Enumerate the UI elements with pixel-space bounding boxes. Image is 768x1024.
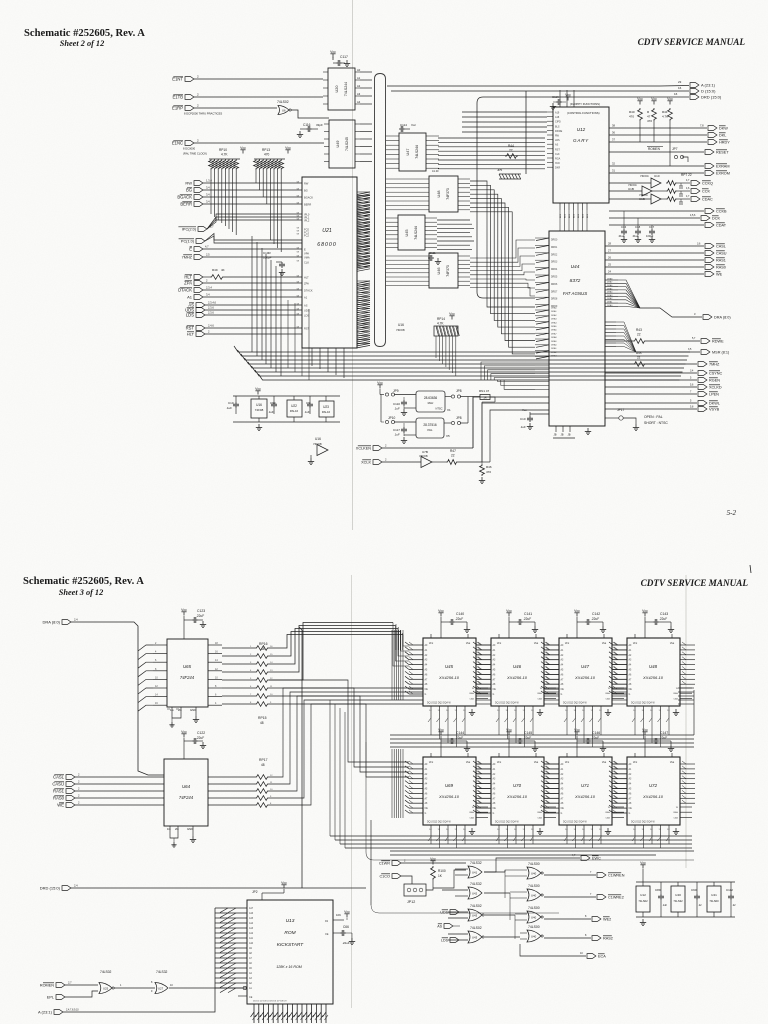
svg-text:AS: AS: [304, 303, 308, 307]
svg-text:U16: U16: [398, 323, 404, 327]
wire UDS: [205, 309, 302, 311]
node E: [194, 247, 203, 252]
wire address fan into row1 chips: [395, 624, 397, 650]
wire CASU row: [605, 252, 704, 254]
svg-text:DRA8: DRA8: [551, 336, 557, 339]
IC U12 GARY: [553, 107, 609, 203]
svg-text:74LS244: 74LS244: [344, 82, 348, 96]
wire address bus over the top to RAM: [269, 635, 403, 649]
svg-text:DRD (15:0): DRD (15:0): [40, 886, 61, 891]
svg-text:22: 22: [509, 149, 513, 153]
wire ZPA: [203, 282, 302, 284]
svg-text:G: G: [425, 813, 427, 815]
svg-text:DRA7: DRA7: [551, 332, 557, 335]
svg-text:U64: U64: [182, 784, 191, 789]
svg-text:1R: 1R: [483, 396, 486, 400]
svg-text:Vcc: Vcc: [430, 857, 436, 861]
svg-text:C117: C117: [340, 55, 348, 59]
svg-text:U48: U48: [437, 191, 441, 198]
svg-text:RST: RST: [186, 326, 195, 331]
svg-text:C112: C112: [726, 888, 733, 892]
svg-text:JB: JB: [568, 433, 571, 437]
main vertical bus loop: [375, 74, 386, 347]
svg-text:.22: .22: [732, 904, 736, 907]
node BG: [194, 188, 203, 193]
svg-text:U21: U21: [322, 228, 332, 234]
node C1WR: [392, 861, 401, 866]
wire fan-out risers to AGNUS: [480, 352, 482, 389]
svg-text:XX4256-10: XX4256-10: [574, 675, 596, 680]
svg-text:Vcc: Vcc: [449, 312, 455, 316]
node EPL: [56, 995, 65, 1000]
svg-text:28.63636: 28.63636: [424, 396, 438, 400]
RAM U69 right pins: [476, 806, 488, 808]
svg-text:G: G: [561, 694, 563, 696]
svg-text:CCKQ: CCKQ: [702, 182, 713, 186]
wire vertical drops from connector rows to lower fan: [251, 236, 253, 352]
U65 right pins: [208, 644, 222, 646]
ground U71: [607, 828, 609, 832]
svg-text:DQ1 DQ2 DQ3 DQ4 W: DQ1 DQ2 DQ3 DQ4 W: [563, 703, 587, 705]
svg-text:RAS0: RAS0: [716, 266, 726, 270]
ground U45: [471, 709, 473, 713]
svg-text:U40: U40: [531, 872, 537, 876]
svg-text:74F08: 74F08: [396, 328, 405, 332]
node DTACK: [194, 288, 203, 293]
wire DTACK: [203, 289, 302, 291]
svg-text:41 40: 41 40: [432, 169, 439, 173]
wire CDAT row: [609, 224, 704, 226]
svg-text:Vcc: Vcc: [438, 728, 444, 732]
svg-text:ZPA: ZPA: [184, 281, 192, 286]
U65 left pins: [153, 644, 167, 646]
node XCLKEN: [373, 446, 382, 451]
svg-text:CLK: CLK: [304, 260, 309, 264]
svg-text:Vcc: Vcc: [642, 728, 648, 732]
svg-text:2,4,7,8,9,10: 2,4,7,8,9,10: [66, 1009, 79, 1012]
svg-text:A (23:1): A (23:1): [38, 1010, 53, 1015]
svg-text:GARY: GARY: [573, 138, 589, 143]
svg-text:U6: U6: [282, 109, 286, 113]
svg-text:JP9: JP9: [393, 389, 399, 393]
wire control lines row2 feed: [330, 835, 692, 837]
svg-text:DRA2: DRA2: [607, 297, 613, 300]
svg-text:74LS02: 74LS02: [638, 899, 648, 903]
node E1NT: [185, 77, 194, 82]
svg-text:.1uF: .1uF: [394, 433, 400, 437]
svg-text:JP5: JP5: [497, 168, 503, 172]
capacitor C89: [660, 882, 662, 894]
wire BERR: [203, 203, 302, 205]
svg-text:DCK: DCK: [712, 217, 720, 221]
RAM U47 XX4256-10: [559, 638, 612, 706]
svg-text:DKWE: DKWE: [555, 130, 563, 133]
node HLT2: [196, 332, 205, 337]
svg-text:4,5,6: 4,5,6: [690, 214, 696, 217]
svg-text:DKW: DKW: [719, 127, 728, 131]
GARY bottom pins: [559, 203, 561, 210]
svg-text:DRA1: DRA1: [551, 310, 557, 313]
wire XCLKEN: [382, 447, 473, 449]
svg-text:.22uF: .22uF: [342, 941, 350, 945]
svg-text:74F373: 74F373: [446, 188, 450, 200]
svg-text:28.37516: 28.37516: [423, 423, 437, 427]
node CDAC: [691, 197, 700, 202]
svg-text:VMA: VMA: [304, 255, 310, 259]
ROM lower-left pin stubs: [238, 995, 247, 997]
svg-text:Vcc: Vcc: [330, 50, 336, 54]
svg-text:U44: U44: [571, 264, 580, 270]
svg-text:74LS244: 74LS244: [414, 226, 418, 240]
svg-text:C141: C141: [524, 612, 532, 616]
node AS input: [444, 924, 453, 929]
svg-text:RST: RST: [304, 326, 310, 330]
svg-text:22: 22: [637, 333, 641, 337]
ROM right side pins: [333, 919, 344, 921]
svg-text:10K: 10K: [336, 913, 341, 917]
tick mark right edge: [750, 565, 751, 573]
node A(23:1) sheet3: [54, 1010, 63, 1015]
svg-text:74F08: 74F08: [313, 442, 322, 446]
svg-text:DRA3: DRA3: [551, 318, 557, 321]
svg-text:C1WR: C1WR: [379, 862, 390, 866]
RAM U69 XX4256-10: [423, 757, 476, 825]
svg-text:HLT: HLT: [184, 275, 192, 280]
RAM U70 left pins: [477, 763, 491, 765]
svg-text:U46: U46: [437, 268, 441, 275]
svg-text:74LS32: 74LS32: [673, 899, 683, 903]
svg-text:7MHZ: 7MHZ: [709, 363, 720, 367]
svg-text:U12: U12: [640, 893, 646, 897]
svg-text:74LS02: 74LS02: [470, 926, 482, 930]
wire ECA output: [520, 944, 586, 956]
svg-text:U16: U16: [256, 403, 262, 407]
RC network 2: [666, 189, 677, 194]
svg-text:C119: C119: [552, 95, 559, 99]
wire RST: [205, 327, 302, 329]
RAM U45 right address pins: [476, 644, 491, 646]
svg-text:A1: A1: [187, 295, 193, 300]
svg-text:U69: U69: [445, 783, 454, 788]
svg-text:G: G: [561, 813, 563, 815]
node DKWL: [708, 133, 717, 138]
svg-text:IPC(2:0): IPC(2:0): [182, 228, 197, 232]
node 7MHZ out: [698, 362, 707, 367]
svg-text:4.7K: 4.7K: [662, 115, 668, 119]
wire CCKB row: [609, 210, 704, 212]
svg-text:U43: U43: [472, 914, 478, 918]
svg-text:C90: C90: [691, 888, 697, 892]
svg-text:U20: U20: [335, 86, 339, 93]
svg-text:.22uF: .22uF: [659, 617, 667, 621]
svg-text:DRA2: DRA2: [551, 351, 557, 354]
svg-text:DKL: DKL: [719, 134, 726, 138]
svg-text:DRA7: DRA7: [607, 281, 613, 284]
svg-text:Sheet 2 of 12: Sheet 2 of 12: [60, 39, 104, 48]
svg-text:DRA1: DRA1: [607, 301, 613, 304]
svg-text:470: 470: [629, 115, 634, 119]
wire E1TB: [194, 96, 323, 98]
wire RAS1 row: [605, 259, 704, 261]
svg-text:U12: U12: [577, 127, 586, 132]
svg-text:Vcc: Vcc: [565, 93, 571, 97]
svg-text:DRD3: DRD3: [551, 262, 558, 264]
svg-text:.22: .22: [698, 904, 702, 907]
svg-text:UDS: UDS: [440, 911, 448, 915]
ground U70: [539, 828, 541, 832]
svg-text:Vcc: Vcc: [506, 609, 512, 613]
svg-text:GND: GND: [187, 827, 193, 831]
svg-text:Vcc: Vcc: [633, 760, 638, 764]
svg-text:CAS: CAS: [606, 697, 611, 700]
svg-text:RGEN: RGEN: [709, 379, 720, 383]
svg-text:LPEN: LPEN: [709, 393, 719, 397]
RAM U45 XX4256-10: [423, 638, 476, 706]
wire row2 chip bottom taps: [430, 837, 432, 844]
svg-text:DRD0: DRD0: [551, 240, 558, 242]
node RESET: [705, 150, 714, 155]
wire rows into GARY upper-left pins: [462, 111, 547, 113]
svg-text:PC(1:0): PC(1:0): [181, 240, 195, 244]
ground U47: [607, 709, 609, 713]
wire E1NC to U49: [194, 142, 324, 144]
svg-text:.1uF: .1uF: [520, 425, 526, 429]
svg-text:CDAT: CDAT: [716, 224, 727, 228]
svg-text:DRA (8:0): DRA (8:0): [42, 620, 60, 625]
svg-text:BGACK: BGACK: [304, 195, 313, 199]
svg-text:7,8: 7,8: [700, 124, 704, 128]
node LDS: [196, 313, 205, 318]
svg-text:U41: U41: [711, 893, 717, 897]
svg-text:RN1 47: RN1 47: [479, 389, 490, 393]
svg-text:RGA: RGA: [555, 158, 561, 161]
svg-text:Vcc: Vcc: [574, 728, 580, 732]
wire left vertical to bottom: [77, 860, 79, 888]
svg-text:100pF: 100pF: [263, 256, 272, 260]
svg-text:2,3,4: 2,3,4: [206, 286, 212, 290]
svg-text:RDWE: RDWE: [712, 340, 724, 344]
svg-text:Vcc: Vcc: [344, 910, 350, 914]
svg-text:74LS00: 74LS00: [528, 862, 540, 866]
svg-text:A19: A19: [555, 112, 560, 115]
wire WE2 output: [544, 918, 591, 920]
RC network 3: [666, 197, 677, 202]
node BERR: [194, 202, 203, 207]
svg-text:C1WRE2: C1WRE2: [608, 896, 624, 900]
node RST: [196, 326, 205, 331]
wire A bus to ROM riser: [63, 908, 215, 1012]
svg-text:.22uF: .22uF: [455, 617, 463, 621]
svg-text:CAS: CAS: [674, 697, 679, 700]
svg-text:U40: U40: [531, 916, 537, 920]
svg-text:R41: R41: [662, 110, 668, 114]
buffer U49 74LS245: [329, 120, 355, 168]
ground U46: [539, 709, 541, 713]
oscillator X5 28.37516 PAL: [416, 418, 444, 438]
svg-text:WE2: WE2: [603, 918, 611, 922]
svg-text:RAS: RAS: [470, 692, 475, 695]
RAM U48 bottom pins: [634, 706, 636, 718]
RAM U47 right pins: [612, 687, 624, 689]
svg-text:IPL2: IPL2: [304, 218, 310, 222]
svg-text:8 DCP2000 THRU PRACTICES: 8 DCP2000 THRU PRACTICES: [184, 112, 222, 116]
svg-text:U25: U25: [103, 987, 109, 991]
RAM U47 left pins: [545, 644, 559, 646]
wire LDS: [205, 314, 302, 316]
AGNUS left pin hatch group 2: [535, 309, 549, 311]
wire RW to CPU: [203, 182, 302, 184]
AGNUS MSR pins merge: [605, 321, 616, 323]
svg-text:XX4256-10: XX4256-10: [506, 675, 528, 680]
svg-text:Vcc: Vcc: [255, 387, 261, 391]
svg-text:C122: C122: [197, 731, 205, 735]
svg-text:DRA4: DRA4: [551, 321, 557, 324]
svg-text:CAS: CAS: [538, 697, 543, 700]
svg-text:DRA8: DRA8: [607, 277, 613, 280]
svg-text:A4: A4: [357, 100, 361, 104]
svg-text:DRD7: DRD7: [551, 291, 558, 293]
wire bus drop to GARY area: [525, 91, 527, 174]
node UDS: [196, 308, 205, 313]
wire into buffer 1: [609, 182, 651, 184]
wire E1RP to gate: [194, 107, 277, 109]
RAM U71 bottom pins: [566, 825, 568, 837]
node WE2: [592, 917, 601, 922]
jumper JP12: [404, 884, 426, 896]
svg-text:128K x 16 ROM: 128K x 16 ROM: [276, 965, 302, 969]
svg-text:CDTV SERVICE MANUAL: CDTV SERVICE MANUAL: [641, 578, 749, 588]
svg-text:CDTV SERVICE MANUAL: CDTV SERVICE MANUAL: [638, 37, 746, 47]
svg-text:RP15: RP15: [258, 716, 267, 720]
svg-text:C10: C10: [228, 401, 234, 405]
svg-text:74LS32: 74LS32: [470, 882, 482, 886]
svg-text:74F373: 74F373: [446, 265, 450, 277]
wire C1WRE2 output: [544, 896, 596, 898]
svg-text:C10: C10: [520, 417, 526, 421]
wire WE row: [605, 273, 704, 275]
svg-text:DRD (15:0): DRD (15:0): [701, 95, 722, 100]
svg-text:EWC: EWC: [592, 857, 601, 861]
wire RAS2 output: [544, 937, 591, 939]
svg-text:3,4: 3,4: [206, 193, 210, 197]
capacitor C112: [730, 882, 732, 894]
svg-text:CIPD: CIPD: [555, 121, 561, 124]
svg-text:A (23:1): A (23:1): [701, 83, 716, 88]
wire XCLK: [382, 461, 421, 463]
svg-text:U40: U40: [531, 935, 537, 939]
svg-text:2,7: 2,7: [68, 981, 72, 985]
svg-text:U40: U40: [531, 894, 537, 898]
svg-text:U47: U47: [406, 149, 410, 156]
wire DCK row: [609, 217, 700, 219]
svg-text:RP7 22: RP7 22: [681, 173, 692, 177]
svg-text:GND: GND: [190, 708, 196, 712]
svg-text:U43: U43: [472, 936, 478, 940]
capacitor C116: [306, 128, 308, 130]
node CASU: [705, 251, 714, 256]
GARY top pins to bus: [559, 90, 561, 107]
svg-text:(CONTROL FUNCTIONS): (CONTROL FUNCTIONS): [567, 111, 600, 115]
svg-text:3,4: 3,4: [206, 293, 210, 297]
wire IPL bundle: [207, 214, 302, 229]
CPU right pin hatch (data/address bus): [357, 191, 370, 193]
svg-text:2,5: 2,5: [206, 253, 210, 257]
svg-text:C116: C116: [303, 123, 311, 127]
svg-text:OPEN : PAL: OPEN : PAL: [644, 415, 663, 419]
wire ROMEN: [65, 984, 98, 986]
RAM U48 left pins: [613, 644, 627, 646]
wire EXRAM row: [609, 165, 704, 167]
svg-text:74LS02: 74LS02: [277, 100, 289, 104]
svg-text:CASL: CASL: [716, 245, 726, 249]
node MSR(8:1): [701, 350, 710, 355]
svg-text:OE: OE: [561, 808, 565, 810]
ROM section: node ROMEN: [56, 983, 65, 988]
node WE sheet3: [66, 803, 75, 808]
buffer U45 74LS244: [398, 215, 425, 250]
svg-text:LDS: LDS: [186, 313, 194, 318]
svg-text:U48: U48: [649, 664, 658, 669]
svg-text:XX4256-10: XX4256-10: [438, 794, 460, 799]
svg-text:D0 D1 D2 D3 D4 D5 D6 D7 D8 D9: D0 D1 D2 D3 D4 D5 D6 D7 D8 D9: [253, 1001, 287, 1003]
svg-text:Vcc: Vcc: [240, 146, 246, 150]
node RDWE: [701, 339, 710, 344]
wire C1WR to gates: [401, 862, 466, 864]
svg-text:47: 47: [647, 115, 651, 119]
svg-text:Sheet 3 of 12: Sheet 3 of 12: [59, 588, 103, 597]
svg-text:A15: A15: [249, 917, 254, 920]
wire into buffer 3: [609, 198, 651, 200]
svg-text:ROMEN: ROMEN: [648, 147, 661, 151]
ROM left pin bundle with taps: [215, 907, 247, 909]
svg-text:Vcc: Vcc: [429, 760, 434, 764]
wire RAS1: [75, 790, 164, 792]
svg-text:Vcc: Vcc: [651, 97, 657, 101]
wire EPL: [65, 991, 98, 997]
svg-text:FC2: FC2: [304, 233, 309, 237]
svg-text:C1CO: C1CO: [379, 875, 390, 879]
svg-text:U45: U45: [405, 230, 409, 237]
U64 right pins: [208, 776, 255, 778]
ground U65: [195, 716, 197, 720]
ground U48: [675, 709, 677, 713]
node EWC: [581, 856, 590, 861]
svg-text:DRA2: DRA2: [551, 314, 557, 317]
wire DRA fan to U65: [138, 645, 153, 651]
svg-text:OE: OE: [629, 808, 633, 810]
svg-text:A10: A10: [249, 942, 254, 945]
wire DKWD row: [609, 127, 707, 129]
RAM U72 right address pins: [680, 763, 695, 765]
node CASL: [705, 244, 714, 249]
svg-text:2,7: 2,7: [210, 225, 214, 229]
svg-text:Vss: Vss: [670, 760, 675, 764]
wire U25 to U27: [114, 987, 155, 989]
svg-text:G: G: [425, 694, 427, 696]
svg-text:DRA0: DRA0: [551, 344, 557, 347]
svg-text:RAS: RAS: [674, 692, 679, 695]
RAM U48 right pins: [680, 687, 692, 689]
svg-text:U46: U46: [513, 664, 522, 669]
svg-text:U1B: U1B: [628, 187, 634, 191]
svg-text:JP8: JP8: [456, 416, 462, 420]
svg-text:X5: X5: [446, 434, 450, 438]
node DRA(8:0): [703, 315, 712, 320]
svg-text:A16: A16: [249, 912, 254, 915]
wire bundle buffers to GARY: [438, 137, 545, 139]
wire 7MHZ: [203, 256, 302, 258]
svg-text:MHz: MHz: [428, 401, 434, 405]
